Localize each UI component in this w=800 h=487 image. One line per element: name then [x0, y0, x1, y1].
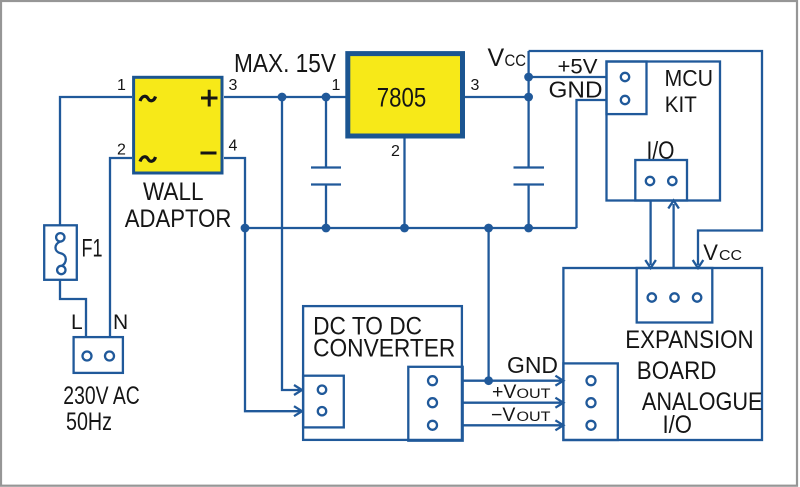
MCU kit block: [607, 62, 721, 201]
svg-text:ANALOGUE: ANALOGUE: [642, 388, 763, 416]
wire from adaptor pin 4 down to ground node and DC-DC input (lower pin): [224, 158, 300, 411]
arrowhead +VOUT into expansion connector: [555, 398, 563, 408]
svg-text:7805: 7805: [377, 83, 427, 113]
wire ground rail: [245, 227, 577, 229]
wire expansion to I/O (up): [672, 204, 674, 268]
svg-text:WALL: WALL: [143, 178, 204, 206]
svg-text:3: 3: [229, 77, 238, 94]
junction dot ground rail at C2: [524, 224, 533, 233]
arrowhead up into MCU I/O connector: [668, 201, 679, 209]
wire 7805 pin 2 to ground rail: [403, 139, 405, 229]
wire -VOUT from DC-DC to expansion connector: [463, 424, 561, 426]
svg-text:+V: +V: [492, 381, 516, 403]
svg-text:50Hz: 50Hz: [66, 408, 112, 436]
wire +15V drop to DC-DC input (upper pin): [282, 97, 300, 390]
mains terminal block 230V AC: [74, 337, 123, 373]
svg-text:1: 1: [117, 77, 126, 94]
DC-DC input connector: [303, 376, 344, 428]
capacitor C1 plates: [311, 168, 341, 185]
svg-text:MAX. 15V: MAX. 15V: [234, 48, 337, 78]
svg-text:OUT: OUT: [517, 409, 551, 424]
MCU I/O connector: [635, 160, 687, 201]
arrowhead -VOUT into expansion connector: [555, 420, 563, 430]
AC tilde symbol bottom: [140, 157, 156, 162]
svg-text:3: 3: [471, 77, 480, 94]
arrowhead into DC-DC upper input: [294, 385, 302, 395]
wire GND junction drop to DC-DC output row: [487, 228, 489, 381]
svg-text:KIT: KIT: [665, 92, 697, 117]
junction dot Vcc at 7805 pin 3: [524, 93, 533, 102]
svg-text:OUT: OUT: [517, 386, 551, 401]
svg-text:MCU: MCU: [665, 65, 714, 91]
svg-text:I/O: I/O: [663, 411, 693, 439]
arrowhead I/O down into expansion top connector: [645, 260, 656, 268]
capacitor C2 plates: [514, 168, 545, 185]
wire +VOUT from DC-DC to expansion connector: [463, 402, 561, 404]
wire +5V to MCU connector: [529, 76, 607, 78]
svg-text:V: V: [488, 44, 505, 72]
junction dot ground rail at adaptor return: [241, 224, 250, 233]
capacitor C2 branch top: [527, 51, 529, 168]
wire +15V rail from adaptor pin 3 to 7805 pin 1: [224, 96, 346, 98]
expansion top connector: [637, 268, 713, 323]
junction dot +15V rail at C1: [322, 93, 331, 102]
svg-text:BOARD: BOARD: [637, 357, 717, 385]
junction dot ground rail at 7805 pin 2: [400, 224, 409, 233]
wire from adaptor pin 2 to terminal N: [110, 158, 132, 336]
wire from adaptor pin 1 to fuse F1 top: [60, 97, 132, 225]
junction dot +15V rail at DC-DC branch: [278, 93, 287, 102]
DC-DC output connector: [408, 367, 462, 441]
minus symbol on adaptor: [201, 152, 217, 155]
svg-text:F1: F1: [82, 235, 103, 263]
svg-text:CC: CC: [505, 51, 527, 70]
capacitor C1 branch bottom: [325, 185, 327, 229]
junction dot Vcc at +5V branch: [524, 73, 533, 82]
fuse F1: [44, 225, 77, 279]
arrowhead Vcc down into expansion top connector: [693, 260, 704, 268]
wire Vcc rail to expansion board: [529, 51, 762, 265]
svg-text:CONVERTER: CONVERTER: [313, 335, 455, 363]
regulator 7805: [348, 54, 463, 136]
expansion left connector: [563, 363, 617, 440]
svg-text:ADAPTOR: ADAPTOR: [125, 205, 232, 233]
DC to DC converter block: [303, 306, 462, 440]
svg-text:+5V: +5V: [558, 56, 598, 79]
MCU power connector: [607, 62, 647, 115]
junction dot ground rail at GND drop: [484, 224, 493, 233]
svg-text:EXPANSION: EXPANSION: [625, 326, 753, 354]
svg-text:CC: CC: [719, 247, 742, 264]
svg-text:1: 1: [332, 77, 341, 94]
wire from fuse F1 bottom to terminal L: [60, 280, 86, 336]
junction dot ground rail at C1: [322, 224, 331, 233]
svg-text:L: L: [71, 311, 83, 334]
wire MCU GND to ground rail: [577, 100, 607, 228]
svg-text:230V AC: 230V AC: [63, 382, 140, 410]
capacitor C1 branch top: [325, 97, 327, 168]
AC tilde symbol top: [140, 96, 156, 101]
svg-text:−V: −V: [491, 404, 515, 426]
arrowhead into DC-DC lower input: [294, 406, 302, 416]
wire I/O to expansion (down): [649, 201, 651, 266]
plus symbol on adaptor: [201, 90, 218, 107]
expansion board block: [563, 268, 762, 440]
svg-text:2: 2: [117, 142, 126, 159]
wall adaptor block: [134, 77, 222, 173]
capacitor C2 branch bottom: [527, 185, 529, 229]
svg-text:2: 2: [391, 143, 400, 160]
arrowhead GND into expansion connector: [555, 376, 563, 386]
svg-text:GND: GND: [549, 76, 603, 102]
junction dot GND output wire: [484, 376, 493, 385]
wire GND from DC-DC to expansion connector: [463, 380, 561, 382]
svg-text:N: N: [113, 311, 128, 334]
svg-text:V: V: [703, 240, 718, 265]
wire 7805 pin 3 to Vcc node: [465, 96, 529, 98]
svg-text:GND: GND: [507, 352, 558, 378]
svg-text:4: 4: [229, 138, 238, 155]
